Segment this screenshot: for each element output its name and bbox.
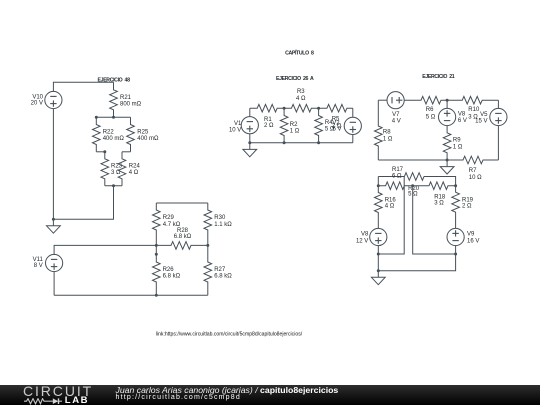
- svg-text:R24: R24: [129, 163, 141, 169]
- svg-text:15 V: 15 V: [475, 119, 487, 125]
- voltage source V8 12V: [356, 228, 387, 245]
- svg-text:3 Ω: 3 Ω: [434, 201, 444, 207]
- resistor R10: [447, 96, 498, 120]
- resistor R22: [93, 117, 125, 152]
- svg-text:R19: R19: [462, 197, 474, 203]
- svg-text:R30: R30: [214, 215, 226, 221]
- wire: [53, 186, 113, 220]
- node: [317, 141, 320, 144]
- wire: [377, 254, 379, 271]
- svg-text:1 Ω: 1 Ω: [290, 128, 300, 134]
- svg-text:R8: R8: [383, 129, 391, 135]
- voltage source V10: [31, 91, 62, 108]
- resistor R16: [375, 177, 397, 229]
- node: [112, 184, 115, 187]
- footer title line: [116, 385, 339, 395]
- wire: [52, 109, 54, 220]
- svg-text:V8: V8: [458, 112, 466, 118]
- resistor R3: [284, 89, 319, 112]
- node: [155, 244, 158, 247]
- svg-text:2 Ω: 2 Ω: [264, 123, 274, 129]
- svg-text:12 V: 12 V: [356, 238, 368, 244]
- svg-text:R29: R29: [163, 215, 175, 221]
- node: [52, 218, 55, 221]
- voltage source V5: [475, 108, 507, 125]
- wire: [249, 108, 251, 116]
- node: [377, 184, 380, 187]
- wire: [378, 177, 404, 255]
- voltage source V8: [439, 108, 467, 125]
- svg-text:6.8 kΩ: 6.8 kΩ: [214, 273, 232, 279]
- svg-text:6 Ω: 6 Ω: [392, 173, 402, 179]
- node: [95, 116, 98, 119]
- wire: [250, 142, 353, 144]
- svg-text:20 V: 20 V: [31, 101, 43, 107]
- resistor R25: [127, 117, 159, 152]
- node: [377, 269, 380, 272]
- wire: [352, 108, 354, 117]
- wire: [497, 126, 499, 160]
- ground: [440, 160, 454, 174]
- node: [283, 107, 286, 110]
- voltage source V9: [447, 228, 479, 245]
- svg-text:4 Ω: 4 Ω: [296, 96, 306, 102]
- svg-text:R25: R25: [137, 130, 149, 136]
- svg-text:400 mΩ: 400 mΩ: [103, 136, 125, 142]
- node: [283, 141, 286, 144]
- wire: [105, 185, 122, 187]
- node: [155, 294, 158, 297]
- svg-text:400 mΩ: 400 mΩ: [137, 136, 159, 142]
- node: [454, 184, 457, 187]
- wire: [377, 246, 379, 254]
- resistor R6: [404, 96, 447, 120]
- voltage source V1: [229, 117, 258, 134]
- ground: [47, 219, 61, 233]
- svg-text:CAPÍTULO 8: CAPÍTULO 8: [285, 49, 314, 57]
- voltage source V11: [33, 254, 63, 271]
- wire: [96, 151, 105, 153]
- svg-text:R18: R18: [434, 195, 446, 201]
- svg-text:V7: V7: [392, 112, 400, 118]
- node: [454, 253, 457, 256]
- wire: [378, 159, 447, 161]
- svg-text:R21: R21: [120, 95, 132, 101]
- wire: [156, 202, 208, 204]
- resistor R9: [443, 126, 463, 160]
- svg-text:4 Ω: 4 Ω: [129, 170, 139, 176]
- resistor R20: [378, 182, 419, 197]
- svg-text:R3: R3: [297, 89, 305, 95]
- svg-text:16 V: 16 V: [467, 238, 479, 244]
- wire: [54, 294, 208, 296]
- resistor R28: [156, 228, 208, 249]
- svg-text:6 V: 6 V: [458, 118, 467, 124]
- logo resistor + diode icon: [24, 398, 62, 405]
- svg-text:1 Ω: 1 Ω: [383, 137, 393, 143]
- svg-text:800 mΩ: 800 mΩ: [120, 101, 142, 107]
- svg-text:V11: V11: [33, 257, 44, 263]
- wire: [413, 186, 456, 254]
- svg-text:V8: V8: [361, 231, 369, 237]
- resistor R18: [404, 182, 455, 207]
- svg-text:R9: R9: [453, 137, 461, 143]
- svg-text:V5: V5: [480, 112, 488, 118]
- wire: [378, 254, 455, 271]
- svg-text:V10: V10: [32, 95, 43, 101]
- ground: [371, 271, 385, 285]
- resistor R26: [153, 245, 181, 295]
- node: [317, 107, 320, 110]
- wire: [54, 245, 156, 254]
- svg-text:6 V: 6 V: [333, 127, 342, 133]
- svg-text:1 Ω: 1 Ω: [453, 144, 463, 150]
- svg-text:EJERCICIO 26 A: EJERCICIO 26 A: [276, 76, 314, 82]
- resistor R29: [153, 203, 181, 245]
- svg-text:1.1 kΩ: 1.1 kΩ: [214, 222, 232, 228]
- resistor R21: [110, 82, 142, 117]
- resistor R7: [447, 156, 498, 181]
- node: [103, 150, 106, 153]
- wire: [424, 177, 456, 186]
- node: [411, 184, 414, 187]
- voltage source V7: [387, 92, 404, 125]
- node: [112, 116, 115, 119]
- svg-text:10 Ω: 10 Ω: [469, 175, 482, 181]
- node: [248, 141, 251, 144]
- wire: [249, 134, 251, 143]
- wire: [53, 272, 55, 296]
- svg-text:R2: R2: [290, 122, 298, 128]
- resistor R30: [204, 203, 232, 245]
- svg-text:10 V: 10 V: [229, 127, 241, 133]
- resistor R19: [452, 186, 474, 229]
- node: [446, 99, 449, 102]
- resistor R27: [204, 245, 232, 295]
- svg-text:R27: R27: [214, 267, 226, 273]
- footer url line: [116, 394, 241, 401]
- svg-text:6.8 kΩ: 6.8 kΩ: [174, 234, 192, 240]
- node: [446, 159, 449, 162]
- svg-text:EJERCICIO 21: EJERCICIO 21: [422, 74, 455, 80]
- svg-text:6.8 kΩ: 6.8 kΩ: [163, 273, 181, 279]
- svg-text:5 Ω: 5 Ω: [426, 114, 436, 120]
- svg-text:4 Ω: 4 Ω: [385, 204, 395, 210]
- wire: [378, 99, 387, 101]
- voltage source V2: [332, 117, 361, 134]
- svg-text:link:https://www.circuitlab.co: link:https://www.circuitlab.com/circuit/…: [156, 331, 303, 337]
- wire: [455, 246, 457, 254]
- svg-text:8 V: 8 V: [34, 263, 43, 269]
- wire: [497, 100, 499, 108]
- svg-text:R17: R17: [392, 167, 404, 173]
- svg-text:R6: R6: [426, 107, 434, 113]
- svg-text:R22: R22: [103, 130, 115, 136]
- resistor R23: [101, 152, 123, 186]
- svg-text:4 V: 4 V: [392, 118, 401, 124]
- node: [377, 253, 380, 256]
- wire: [53, 82, 113, 91]
- resistor R5: [319, 104, 353, 129]
- svg-text:2 Ω: 2 Ω: [462, 204, 472, 210]
- wire: [446, 100, 448, 108]
- footer bar: [0, 385, 540, 405]
- resistor R4: [315, 108, 335, 143]
- resistor R17: [392, 167, 424, 181]
- svg-text:R26: R26: [163, 267, 175, 273]
- node: [155, 253, 158, 256]
- logo LAB: [65, 395, 89, 405]
- wire: [96, 116, 130, 118]
- svg-text:V1: V1: [234, 121, 242, 127]
- ground: [243, 143, 257, 157]
- wire: [122, 151, 131, 153]
- svg-text:R10: R10: [468, 107, 480, 113]
- resistor R1: [250, 104, 284, 129]
- svg-text:R23: R23: [111, 163, 123, 169]
- resistor R24: [118, 152, 140, 186]
- resistor R8: [375, 100, 393, 160]
- resistor R2: [280, 108, 300, 143]
- svg-text:R7: R7: [469, 168, 477, 174]
- wire: [378, 176, 404, 178]
- svg-text:V9: V9: [467, 231, 475, 237]
- svg-text:R16: R16: [385, 197, 397, 203]
- node: [206, 244, 209, 247]
- CircuitLab logo text: [23, 383, 93, 399]
- wire: [352, 135, 354, 143]
